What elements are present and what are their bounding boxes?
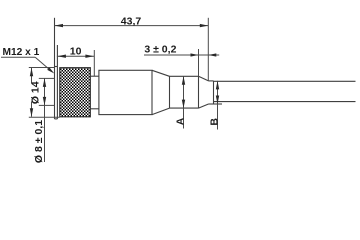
svg-text:B: B — [209, 118, 221, 126]
dimension 10 — [57, 50, 94, 76]
svg-text:A: A — [174, 117, 186, 125]
dimension Ø 8 ± 0,1 — [39, 78, 55, 162]
dimension B — [217, 81, 219, 130]
connector front rim — [55, 18, 58, 119]
neck right edge / bushing boundary — [198, 76, 200, 108]
groove behind nut — [90, 76, 99, 109]
tapered cone — [152, 70, 170, 114]
svg-text:M12 x 1: M12 x 1 — [3, 47, 40, 58]
knurled coupling nut M12 — [60, 68, 91, 117]
dimension 3 ± 0,2 — [144, 49, 219, 76]
dimension A — [183, 76, 185, 128]
label M12 x 1 with leader — [1, 57, 52, 71]
dimension 43,7 — [55, 18, 209, 81]
dimension Ø 14 — [29, 68, 60, 118]
cable bushing (dimension B) — [199, 76, 223, 108]
connector body — [99, 70, 152, 114]
svg-text:10: 10 — [70, 46, 82, 58]
svg-text:Ø 14: Ø 14 — [29, 81, 41, 104]
svg-text:43,7: 43,7 — [121, 16, 142, 28]
svg-text:Ø 8 ± 0,1: Ø 8 ± 0,1 — [33, 120, 45, 163]
svg-text:3 ± 0,2: 3 ± 0,2 — [144, 44, 176, 56]
cable — [214, 81, 356, 101]
neck section (dimension A) — [170, 76, 199, 108]
